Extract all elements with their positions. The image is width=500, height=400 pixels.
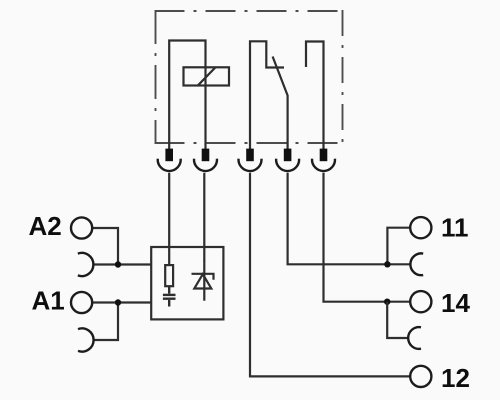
NC fixed contact wire (terminal 5 hook) [306,42,324,151]
contact blade (movable) to terminal 4 [273,57,288,151]
coil loop wire T1-T2 [169,41,205,151]
terminal cup 3 [239,159,262,171]
terminal hook A2 [78,253,94,276]
terminal circle A1 [71,292,92,313]
terminal pin 3 [246,149,254,162]
terminal pin 2 [202,149,210,162]
wire terminal3 to terminal 12 [250,173,410,377]
svg-text:14: 14 [441,288,470,318]
wire terminal1 to resistor [168,173,170,265]
terminal pin 5 [320,149,328,162]
junction dot 11 [384,261,390,267]
terminal pin 1 [165,149,173,162]
wire A2 hook to module box [93,263,151,265]
terminal circle 11 [410,217,431,238]
wire 11 circle to junction [387,228,410,265]
terminal cup 2 [194,159,217,171]
junction dot A2 [115,261,121,267]
suppressor diode D1 [192,260,214,301]
terminal cup 1 [158,159,181,171]
capacitor C1 [163,286,176,306]
relay coil K1 [184,67,230,85]
terminal hook A1 [78,328,94,351]
wire A2 circle to junction [92,228,118,265]
svg-text:11: 11 [441,212,469,242]
junction dot 14 [384,299,390,305]
svg-text:A1: A1 [32,285,65,315]
wire terminal5 to contact 14 [324,173,411,302]
terminal circle 14 [410,291,431,312]
terminal hook 14 [408,327,421,349]
terminal circle 12 [410,366,431,387]
terminal cup 5 [312,159,335,171]
wire A1 hook to junction [94,303,118,341]
svg-text:A2: A2 [29,211,62,241]
wire 14 junction to hook [387,302,408,338]
junction dot A1 [115,299,121,305]
terminal pin 4 [284,149,292,162]
terminal circle A2 [71,217,92,238]
terminal hook 11 [410,253,423,275]
protection module box [151,247,223,319]
terminal cup 4 [276,159,299,171]
wire terminal2 to diode [203,173,205,261]
resistor R1 [165,265,173,286]
svg-text:12: 12 [441,363,470,393]
wire A1 circle to module box [92,301,151,303]
wire terminal4 to contact 11 hook [288,173,411,264]
relay enclosure (dash-dot box) [155,10,344,144]
NO fixed contact wire (terminal 3 step) [250,41,284,150]
